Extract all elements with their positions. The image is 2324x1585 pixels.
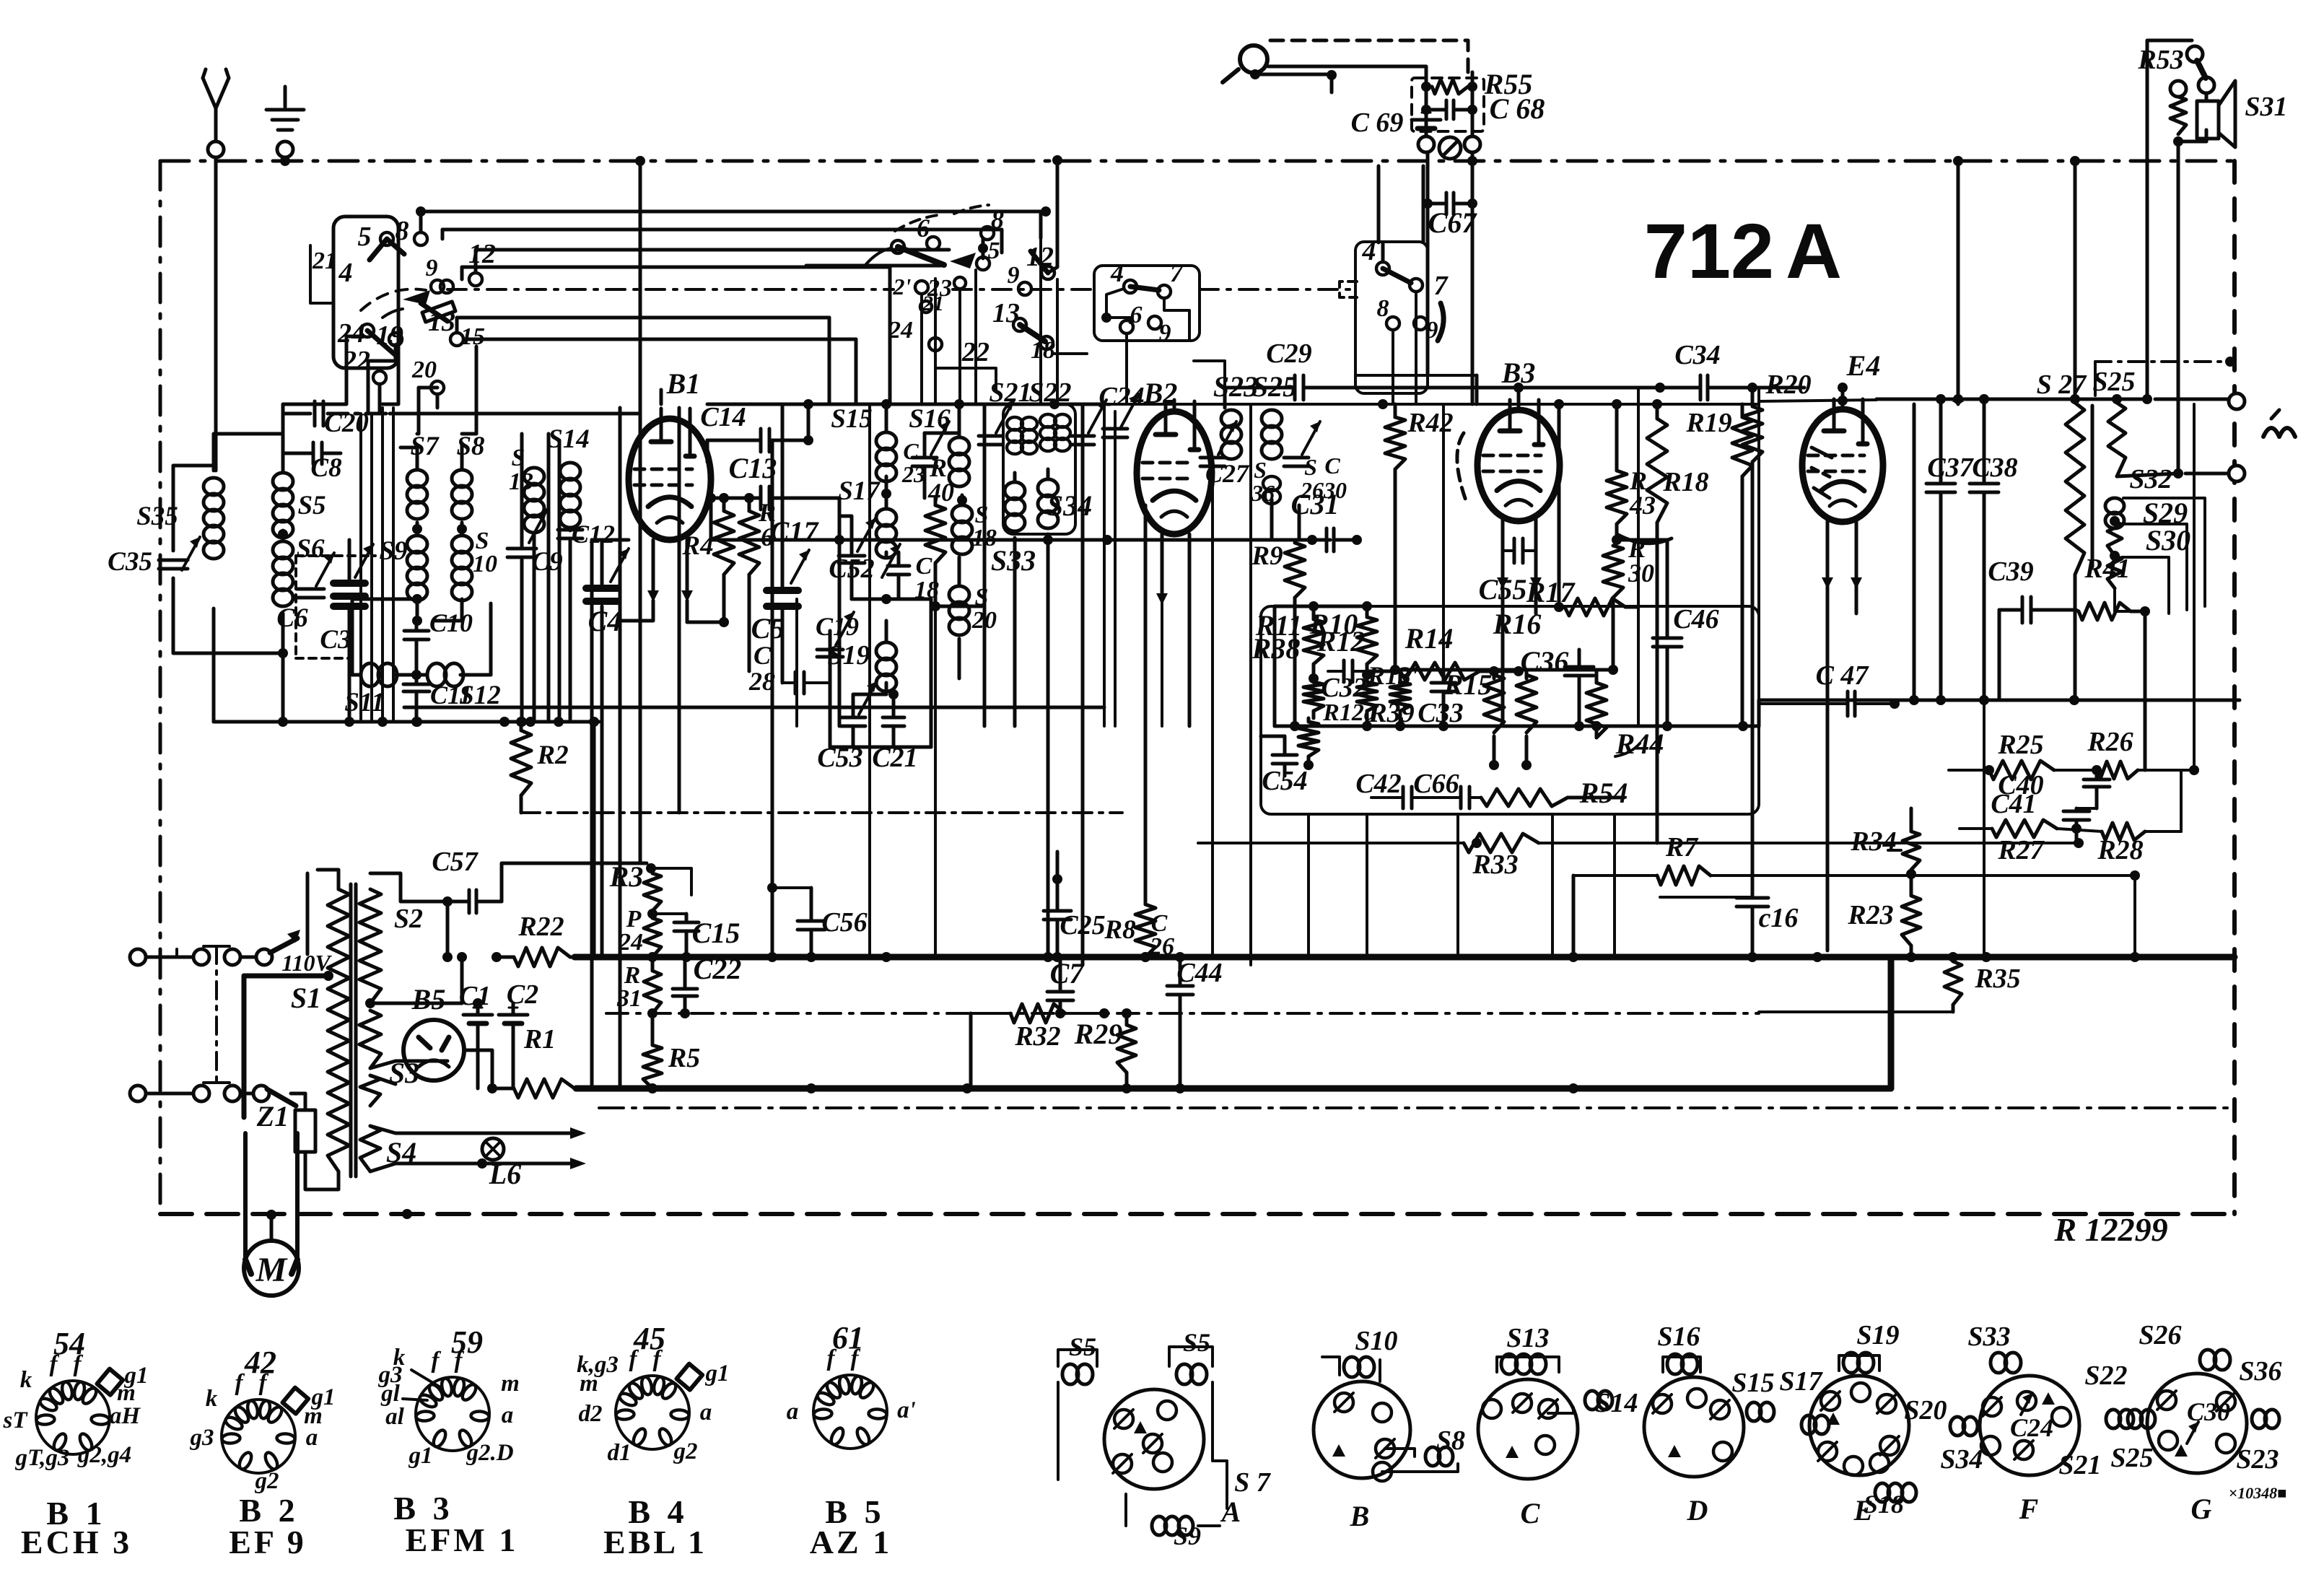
svg-text:7: 7 [1170, 258, 1184, 287]
svg-text:S25: S25 [1252, 370, 1297, 403]
svg-text:g2: g2 [673, 1438, 698, 1464]
svg-text:C46: C46 [1673, 604, 1718, 634]
svg-text:E4: E4 [1846, 349, 1881, 382]
svg-text:R42: R42 [1407, 408, 1453, 438]
svg-text:S: S [1254, 457, 1267, 483]
svg-text:C29: C29 [1266, 339, 1311, 369]
wire B1 leads [621, 390, 693, 622]
svg-text:m: m [501, 1371, 520, 1397]
svg-text:S11: S11 [344, 688, 385, 717]
trimmer C53 [817, 681, 886, 773]
resistor R11 [1255, 601, 1324, 684]
earth ground [266, 87, 304, 166]
coil S20 [935, 557, 997, 678]
wire right drops [1949, 404, 2194, 770]
capacitor C13 [706, 452, 839, 540]
coil S22 [1028, 377, 1071, 451]
svg-text:19: 19 [376, 320, 403, 351]
svg-text:×10348■: ×10348■ [2229, 1484, 2287, 1502]
tube socket B3 [378, 1324, 520, 1469]
svg-text:R28: R28 [2097, 835, 2143, 865]
wire harness left-down [283, 336, 476, 434]
svg-text:m: m [117, 1380, 136, 1406]
resistor S30 [2107, 524, 2190, 614]
capacitor C14 [700, 402, 813, 462]
svg-text:D: D [1687, 1494, 1708, 1527]
svg-text:C39: C39 [1988, 556, 2033, 587]
variable capacitor C5 [751, 404, 820, 671]
wire B1 column x887 [635, 156, 645, 863]
wire y490 runs [1054, 354, 1225, 388]
svg-text:B5: B5 [411, 983, 446, 1016]
capacitor C36 [1521, 645, 1594, 731]
svg-text:R7: R7 [1665, 832, 1699, 863]
pickup [1223, 40, 1468, 92]
svg-text:g2,g4: g2,g4 [77, 1442, 131, 1468]
svg-text:24: 24 [888, 317, 913, 344]
resistor R3 [609, 860, 661, 919]
capacitor C2 [499, 979, 538, 1088]
svg-text:R54: R54 [1579, 777, 1628, 809]
wire B1 column x1070 [771, 440, 774, 957]
tube socket B4 [577, 1321, 729, 1466]
wire B3 plate run [1480, 386, 1660, 390]
wire 2437 column [1757, 390, 1760, 1034]
coil S36b [1251, 457, 1280, 506]
resistor R33 [1198, 834, 2084, 880]
svg-text:4: 4 [1110, 258, 1124, 287]
capacitor C18pair [852, 544, 939, 604]
resistor R44 [1586, 670, 1664, 760]
svg-text:C7: C7 [1050, 957, 1085, 990]
svg-text:aH: aH [110, 1403, 141, 1429]
svg-text:Z1: Z1 [256, 1100, 289, 1132]
svg-text:C56: C56 [821, 907, 867, 938]
svg-text:7: 7 [1434, 271, 1449, 301]
resistor R43 [1607, 404, 1672, 545]
antenna [203, 69, 229, 471]
svg-text:13: 13 [428, 307, 455, 337]
svg-text:40: 40 [927, 478, 954, 507]
svg-text:6: 6 [917, 214, 930, 243]
wire B2 leads [1145, 400, 1189, 726]
svg-text:S32: S32 [2129, 464, 2172, 494]
capacitor C16 [1737, 897, 1798, 957]
svg-text:C10: C10 [429, 608, 473, 637]
dash line low [599, 1106, 2235, 1109]
svg-text:22: 22 [961, 337, 990, 367]
coil S16 [909, 404, 969, 486]
transformer taps [365, 998, 570, 1171]
svg-text:S5: S5 [297, 491, 326, 520]
potentiometer S25 [2092, 367, 2183, 482]
svg-text:61: 61 [832, 1320, 864, 1355]
diagram D [1644, 1322, 1775, 1527]
capacitor C11 [403, 675, 472, 727]
svg-text:5: 5 [358, 222, 372, 252]
coil S19 [827, 621, 896, 691]
svg-text:S34: S34 [1940, 1444, 1983, 1475]
svg-text:a: a [787, 1399, 799, 1425]
svg-text:S5: S5 [1069, 1332, 1096, 1361]
capacitor C22 [652, 953, 971, 1018]
capacitor C40 [1998, 770, 2110, 808]
wire S11 S12 row [352, 594, 491, 675]
wire horizontal bundle [404, 396, 1877, 707]
svg-text:S: S [512, 445, 525, 471]
svg-text:C13: C13 [729, 452, 777, 484]
headphone jack [2263, 410, 2295, 437]
resistor P24 [618, 906, 661, 962]
coil S25b [1252, 370, 1297, 459]
svg-text:R3: R3 [609, 860, 644, 893]
svg-text:13: 13 [992, 298, 1020, 328]
svg-text:d2: d2 [579, 1401, 603, 1427]
svg-text:712: 712 [1644, 207, 1774, 294]
resistor R25 [1949, 730, 2097, 780]
coil S21 [989, 377, 1037, 454]
svg-text:S15: S15 [831, 404, 873, 434]
svg-text:C 69: C 69 [1351, 108, 1404, 138]
svg-text:S14: S14 [1595, 1388, 1638, 1418]
svg-text:S33: S33 [1967, 1322, 2010, 1352]
svg-text:C38: C38 [1972, 453, 2017, 483]
mains terminals [130, 873, 333, 1117]
svg-text:C34: C34 [1674, 340, 1720, 370]
resistor R41 [2076, 554, 2150, 770]
wire S5 column [278, 414, 288, 727]
capacitor C46 [1653, 540, 1719, 731]
svg-text:C14: C14 [700, 402, 746, 432]
svg-text:C: C [916, 553, 932, 580]
capacitor C29 [1225, 339, 1480, 408]
svg-text:31: 31 [616, 985, 642, 1012]
svg-text:S14: S14 [548, 424, 590, 454]
svg-text:C24: C24 [2010, 1413, 2053, 1442]
wire power drop a [175, 949, 178, 957]
wire S16 tops [925, 404, 959, 437]
resistor R22 [492, 912, 577, 966]
switch bank 4 [1094, 258, 1200, 404]
svg-text:EF 9: EF 9 [229, 1524, 307, 1560]
wire vertical bundle [797, 166, 1638, 965]
trimmer C35 [108, 537, 200, 577]
svg-text:4: 4 [338, 258, 353, 288]
svg-text:9: 9 [1159, 320, 1171, 346]
svg-text:B: B [1350, 1500, 1370, 1532]
svg-text:9: 9 [1426, 317, 1438, 344]
svg-text:C3: C3 [320, 625, 351, 655]
resistor R42 [1385, 404, 1454, 675]
resistor R26 [2087, 727, 2199, 779]
svg-text:a: a [502, 1402, 514, 1428]
svg-text:S17: S17 [1779, 1366, 1823, 1397]
terminal out2 [2185, 466, 2245, 481]
svg-text:B1: B1 [666, 367, 701, 400]
wave-band switch bank 1 [312, 216, 496, 394]
svg-text:C55: C55 [1479, 573, 1527, 606]
trimmer C9 [507, 434, 563, 727]
coil S14 [548, 424, 590, 528]
svg-text:9: 9 [426, 255, 438, 281]
svg-text:2': 2' [893, 274, 912, 300]
pilot lamp L6 [455, 1127, 586, 1190]
svg-text:R12: R12 [1316, 625, 1366, 658]
svg-text:20: 20 [411, 357, 437, 383]
wire B3 leads [1497, 383, 1542, 726]
svg-text:k: k [206, 1386, 218, 1412]
resistor R6 [739, 493, 776, 671]
caption B4 [603, 1493, 707, 1560]
svg-text:g3: g3 [190, 1425, 214, 1451]
capacitor C10 [404, 608, 473, 680]
svg-text:S2: S2 [394, 904, 423, 934]
capacitor C25 [1044, 852, 1106, 962]
coil S33 [991, 482, 1036, 577]
svg-text:C17: C17 [770, 515, 820, 548]
svg-text:c16: c16 [1759, 903, 1799, 933]
tube B2 [1137, 377, 1212, 534]
svg-text:S20: S20 [1904, 1395, 1947, 1425]
caption B5 [810, 1493, 892, 1560]
svg-text:S26: S26 [2139, 1320, 2181, 1350]
coil S34 [1038, 479, 1092, 528]
svg-text:S30: S30 [2146, 524, 2190, 556]
capacitor C54 [1261, 736, 1308, 796]
box avc [1261, 606, 1759, 814]
resistor R19 [1685, 404, 1752, 726]
svg-text:C42: C42 [1355, 769, 1401, 799]
svg-text:S25: S25 [2110, 1443, 2153, 1473]
svg-text:G: G [2191, 1493, 2212, 1525]
wire cluster bus [1275, 721, 1759, 731]
resistor R53 [2137, 40, 2214, 473]
svg-text:S5: S5 [1183, 1328, 1210, 1357]
resistor R15 [1443, 666, 1504, 770]
resistor R23 [1660, 896, 1921, 957]
diagram G [2110, 1320, 2281, 1525]
capacitor C66 [1412, 769, 1469, 808]
svg-text:S34: S34 [1047, 489, 1092, 522]
svg-text:al: al [385, 1404, 405, 1430]
resistor R12 [1303, 625, 1365, 718]
svg-text:S17: S17 [838, 476, 881, 506]
diagram F [1940, 1322, 2133, 1525]
svg-text:R27: R27 [1997, 835, 2045, 865]
resistor R18 [1647, 404, 1709, 843]
wire S15 bottom [885, 476, 888, 480]
resistor R34 [1850, 808, 1920, 896]
wire B1 grid line [592, 535, 1330, 1088]
tube socket B1 [3, 1326, 149, 1471]
capacitor C57 [370, 847, 647, 913]
svg-text:S23: S23 [1213, 370, 1258, 403]
svg-text:C41: C41 [1991, 789, 2036, 819]
coil S17 [838, 476, 896, 558]
trimmer C24T2 [1071, 400, 1106, 445]
svg-text:5: 5 [988, 237, 1000, 264]
resistor R12a [1322, 675, 1377, 731]
wave-band switch bank 2 [806, 155, 1062, 404]
svg-text:8: 8 [1377, 295, 1389, 322]
resistor R13p [1367, 661, 1418, 690]
capacitor C56 [767, 883, 868, 962]
diagram C [1478, 1323, 1638, 1529]
svg-text:S 7: S 7 [1234, 1467, 1272, 1498]
svg-text:R29: R29 [1074, 1018, 1123, 1050]
resistor R40 [925, 453, 954, 611]
svg-text:S19: S19 [1856, 1320, 1899, 1350]
wire cluster top [1275, 606, 1367, 726]
svg-text:C11: C11 [430, 681, 472, 709]
resistor R30 [1603, 534, 1654, 675]
svg-text:C67: C67 [1428, 206, 1478, 239]
tube E4 [1802, 349, 1883, 522]
svg-text:C 68: C 68 [1490, 92, 1545, 125]
chassis dashed border [160, 161, 2235, 1214]
svg-text:12: 12 [468, 239, 496, 269]
capacitor C55 [1479, 538, 1536, 606]
resistor R16v [1493, 608, 1542, 770]
capacitor C1 [459, 981, 492, 1088]
capacitor C15 [652, 914, 740, 962]
svg-text:S8: S8 [1436, 1425, 1465, 1456]
capacitor C67 [1423, 193, 1477, 239]
coil S18 [952, 495, 997, 554]
wire S2 tap [370, 901, 577, 1003]
switch bank 3 [1340, 236, 1449, 404]
svg-text:d1: d1 [608, 1440, 632, 1466]
svg-text:C: C [1324, 453, 1340, 479]
resistor R32 [971, 1004, 1109, 1088]
svg-text:C19: C19 [816, 612, 859, 641]
svg-text:C8: C8 [310, 453, 341, 483]
svg-text:A: A [1786, 207, 1842, 294]
svg-text:S19: S19 [827, 640, 870, 671]
svg-text:g2.D: g2.D [466, 1440, 513, 1466]
diagram A [1058, 1328, 1272, 1550]
svg-text:S25: S25 [2092, 367, 2135, 397]
svg-text:S15: S15 [1731, 1368, 1774, 1398]
svg-text:R17: R17 [1526, 576, 1576, 608]
svg-text:S10: S10 [1355, 1326, 1397, 1356]
svg-text:R8: R8 [1104, 915, 1135, 945]
capacitor C32 [1321, 660, 1367, 703]
wire left block bus [214, 408, 679, 1088]
svg-text:C 47: C 47 [1816, 660, 1870, 691]
svg-text:C6: C6 [276, 603, 308, 633]
resistor S29 [2107, 497, 2188, 610]
transformer T [297, 870, 423, 1189]
resistor R31 [616, 957, 661, 1025]
resistor R38 [1251, 632, 1319, 770]
resistor R8 [1104, 549, 1156, 962]
bus corner right [1888, 957, 1895, 1088]
svg-text:EFM 1: EFM 1 [406, 1521, 519, 1558]
svg-text:g2: g2 [255, 1468, 279, 1494]
wire power to motor [245, 1117, 246, 1133]
resistor R14 [1367, 622, 1524, 680]
variable capacitor C3 [320, 540, 373, 727]
capacitor C8 [283, 442, 342, 483]
svg-text:R 12299: R 12299 [2053, 1211, 2167, 1248]
wire R43 R30 column [1395, 668, 1613, 672]
coil S12 [427, 663, 501, 710]
coil S35 [136, 478, 224, 559]
resistor R17 [1526, 404, 1637, 616]
capacitor C39 [1988, 556, 2076, 700]
svg-text:C37: C37 [1927, 453, 1974, 483]
variable capacitor C4 [586, 540, 629, 957]
svg-text:C36: C36 [1521, 645, 1569, 678]
coil S13 [509, 445, 544, 533]
capacitor C28 [748, 631, 830, 696]
svg-text:R2: R2 [536, 741, 568, 770]
svg-text:9: 9 [1008, 262, 1020, 289]
svg-text:m: m [580, 1371, 598, 1397]
dash line mid [606, 1012, 1953, 1013]
svg-text:110V: 110V [281, 950, 332, 976]
svg-text:S13: S13 [1506, 1323, 1549, 1353]
bus lower thick [576, 1083, 1891, 1093]
wire R3 top [646, 863, 691, 895]
svg-text:R33: R33 [1472, 850, 1518, 880]
svg-text:R34: R34 [1850, 826, 1896, 857]
svg-text:R32: R32 [1014, 1021, 1060, 1052]
svg-text:g1: g1 [409, 1443, 433, 1469]
variable capacitor C6 [276, 553, 375, 658]
svg-text:R13': R13' [1367, 661, 1418, 690]
wire y970 bus [1759, 404, 2240, 726]
wire mechanical shaft [447, 288, 1355, 291]
wire E4 leads [1822, 383, 1862, 951]
svg-text:S6: S6 [296, 534, 325, 564]
capacitor C41 [1991, 789, 2097, 843]
svg-text:6: 6 [1130, 302, 1143, 328]
caption B2 [229, 1492, 307, 1560]
svg-text:A: A [1220, 1496, 1241, 1528]
capacitor C12 [558, 520, 615, 722]
capacitor C44 [1149, 910, 1223, 1093]
resistor R9 [1251, 541, 1305, 731]
svg-text:24: 24 [337, 318, 365, 349]
resistor R2 [511, 717, 1122, 813]
svg-text:R25: R25 [1997, 730, 2043, 760]
svg-text:S: S [1304, 454, 1317, 480]
tube socket B2 [190, 1345, 336, 1494]
svg-text:R19: R19 [1685, 408, 1731, 438]
coil S9 [379, 536, 427, 601]
trimmer C27 [1200, 422, 1250, 488]
svg-text:30: 30 [1628, 559, 1654, 588]
svg-text:21: 21 [922, 292, 944, 315]
svg-text:S 27: S 27 [2037, 370, 2088, 400]
svg-text:R18: R18 [1662, 467, 1708, 497]
trimmer C24T [979, 400, 1014, 445]
wire S35 loop [173, 434, 283, 722]
terminal out1 [2142, 393, 2245, 409]
wire 2713 column [1953, 156, 1963, 404]
resistor R55 [1412, 68, 1532, 131]
capacitor C38 [1970, 399, 2018, 957]
svg-text:R14: R14 [1405, 622, 1454, 655]
capacitor C20 [283, 401, 640, 438]
svg-text:g1: g1 [705, 1361, 730, 1387]
svg-text:E: E [1853, 1494, 1874, 1527]
switch S1 label [281, 950, 332, 1014]
capacitor C24 [1098, 382, 1144, 462]
tube B3 [1457, 357, 1560, 521]
